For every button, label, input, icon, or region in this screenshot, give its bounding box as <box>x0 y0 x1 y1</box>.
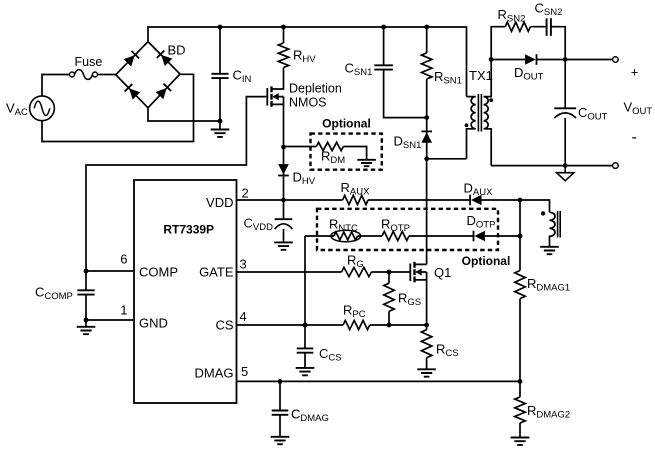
wire RDMAG1 to RDMAG2 <box>519 299 521 397</box>
resistor RPC <box>343 320 370 329</box>
polarity dot primary <box>465 123 469 127</box>
transformer TX1 core <box>478 94 481 132</box>
wire bridge minus rail <box>148 108 220 121</box>
wire DMAG pin line <box>237 380 521 382</box>
wire RAUX to DAUX <box>368 199 471 201</box>
ground CVDD <box>274 242 293 249</box>
resistor ROTP <box>382 231 409 240</box>
svg-text:GATE: GATE <box>199 265 234 280</box>
wire VAC top to fuse <box>42 75 69 96</box>
ground aux winding <box>540 247 559 254</box>
wire aux divider top <box>519 200 521 271</box>
junction GND <box>84 318 89 323</box>
optional box RDM <box>311 134 382 170</box>
wire RCS ground stub <box>426 358 428 370</box>
junction secondary top <box>489 57 494 62</box>
svg-text:VDD: VDD <box>206 195 233 210</box>
svg-text:TX1: TX1 <box>469 68 493 83</box>
resistor RDM <box>316 142 343 150</box>
wire VDD pin2 line <box>237 199 343 201</box>
wire CDMAG ground stub <box>279 415 281 437</box>
diode DSN1 <box>421 131 432 142</box>
wire NMOS gate to COMP net <box>86 97 267 271</box>
diode DAUX <box>470 195 481 206</box>
wire DAUX to aux winding <box>482 200 550 212</box>
wire RPC to Q1 source <box>370 324 427 326</box>
transformer TX1 secondary winding <box>484 60 492 166</box>
wire CCS ground stub <box>304 353 306 368</box>
wire CVDD top <box>283 200 285 219</box>
junction RDM branch <box>281 145 286 150</box>
capacitor CDMAG <box>272 411 289 415</box>
wire CVDD ground stub <box>283 229 285 243</box>
wire NTC branch vertical <box>304 236 306 325</box>
bridge BD diamond <box>116 42 180 108</box>
svg-text:DMAG: DMAG <box>195 366 234 381</box>
wire RGS top <box>388 272 390 283</box>
ground RCS <box>417 369 436 376</box>
bridge diode bottom-right <box>156 84 172 100</box>
wire CIN ground stub <box>219 121 221 130</box>
resistor RSN1 <box>422 53 432 79</box>
ground VOUT triangle <box>557 166 574 181</box>
polarity dot secondary <box>489 98 493 102</box>
wire Q1 source down <box>426 272 428 325</box>
junction CS RGS <box>387 323 392 328</box>
junction output plus <box>563 57 568 62</box>
wire RSN1 top <box>426 27 428 53</box>
optional box NTC <box>317 209 498 250</box>
junction CIN top <box>218 25 223 30</box>
svg-text:6: 6 <box>120 251 127 266</box>
junction CIN bottom <box>218 119 223 124</box>
junction DOTP node <box>518 234 523 239</box>
wire HV bus top rail <box>148 27 467 97</box>
junction aux node <box>518 198 523 203</box>
svg-text:Optional: Optional <box>322 117 371 131</box>
wire RHV top <box>283 27 285 43</box>
wire secondary top to DOUT <box>491 59 525 61</box>
fuse F1 <box>70 72 75 77</box>
transistor depletion NMOS <box>267 86 283 106</box>
wire GATE pin line <box>237 271 342 273</box>
wire NMOS source down <box>283 97 285 200</box>
terminal VOUT minus <box>613 163 619 169</box>
capacitor CSN2 <box>547 18 551 36</box>
bridge diode top-left <box>124 51 140 67</box>
aux winding core <box>558 211 561 238</box>
ground RDMAG2 <box>511 438 530 445</box>
wire CIN bottom <box>219 78 221 121</box>
capacitor CCS <box>297 348 314 352</box>
svg-text:4: 4 <box>240 309 247 324</box>
svg-text:BD: BD <box>168 43 186 58</box>
wire COMP pin line <box>86 270 134 272</box>
junction RHV top <box>281 25 286 30</box>
wire RG to Q1 gate <box>371 271 410 273</box>
bridge diode top-right <box>157 51 173 67</box>
resistor RGS <box>384 283 394 311</box>
transformer TX1 primary winding <box>467 97 476 159</box>
junction CS RCS <box>424 323 429 328</box>
junction output minus <box>563 163 568 168</box>
wire DOTP to aux divider <box>485 235 520 237</box>
svg-text:Fuse: Fuse <box>75 55 103 69</box>
svg-text:Q1: Q1 <box>434 265 451 280</box>
wire RSN2 branch left <box>491 27 505 60</box>
wire DOUT to output plus <box>537 59 613 61</box>
wire RNTC to ROTP <box>358 235 383 237</box>
wire CCOMP top <box>85 271 87 290</box>
diode DOTP <box>474 231 485 242</box>
junction RSN1 top rail <box>424 25 429 30</box>
ground CDMAG <box>271 437 290 444</box>
wire RHV to NMOS drain <box>272 68 284 90</box>
svg-text:COMP: COMP <box>139 265 178 280</box>
resistor RG <box>342 267 372 276</box>
polarity dot aux <box>541 211 545 215</box>
aux winding coil <box>550 212 556 247</box>
ground RDM <box>357 160 376 166</box>
wire Q1 drain up <box>426 159 428 265</box>
junction CDMAG <box>278 379 283 384</box>
junction DMAG node <box>518 379 523 384</box>
svg-text:Optional: Optional <box>462 254 511 268</box>
wire COUT bottom <box>564 118 566 166</box>
wire fuse to bridge <box>98 74 116 76</box>
resistor RHV <box>278 43 288 67</box>
wire VAC bottom return <box>42 74 194 141</box>
ground CIN <box>211 130 230 137</box>
junction drain node <box>424 156 429 161</box>
svg-text:3: 3 <box>240 257 247 272</box>
wire drain to primary <box>427 158 467 160</box>
capacitor CSN1 <box>374 65 393 69</box>
resistor RNTC <box>334 232 357 240</box>
wire secondary bottom rail <box>491 165 612 167</box>
ground CCOMP <box>77 327 96 334</box>
wire COUT top <box>564 60 566 109</box>
wire RGS bottom <box>388 311 390 325</box>
wire CS pin line <box>237 324 344 326</box>
AC source VAC <box>30 96 55 121</box>
wire CDMAG top <box>279 381 281 410</box>
bridge diode bottom-left <box>125 84 141 100</box>
wire ROTP to DOTP <box>409 235 474 237</box>
svg-text:RT7339P: RT7339P <box>163 223 214 237</box>
wire RSN2 to CSN2 <box>530 26 546 28</box>
wire CSN2 to plus node <box>551 27 565 60</box>
capacitor CIN <box>211 74 228 78</box>
wire RDM branch <box>284 146 317 148</box>
thermistor ellipse RNTC <box>331 230 361 242</box>
wire GND pin line <box>86 319 134 321</box>
junction CS CCS <box>303 323 308 328</box>
resistor RDMAG1 <box>515 271 525 299</box>
resistor RAUX <box>343 195 369 204</box>
svg-text:1: 1 <box>120 303 127 318</box>
diode DHV <box>278 164 289 175</box>
wire RDMAG2 ground stub <box>519 423 521 438</box>
wire RCS top <box>426 325 428 330</box>
wire CSN1 bottom <box>384 70 427 118</box>
wire RNTC left <box>305 235 334 237</box>
capacitor COUT <box>554 107 576 109</box>
junction CSN1 top rail <box>381 25 386 30</box>
resistor RCS <box>421 330 431 358</box>
terminal VOUT plus <box>613 57 619 63</box>
junction COMP <box>84 269 89 274</box>
wire CIN top <box>219 27 221 74</box>
capacitor CCOMP <box>77 290 94 294</box>
svg-text:-: - <box>632 129 637 146</box>
resistor RSN2 <box>505 22 530 31</box>
wire GND ground stub <box>85 320 87 327</box>
svg-text:2: 2 <box>242 185 249 200</box>
svg-text:5: 5 <box>241 364 248 379</box>
wire CCS top <box>304 325 306 348</box>
svg-text:GND: GND <box>139 316 168 331</box>
svg-text:+: + <box>631 65 639 80</box>
diode DOUT <box>525 54 536 65</box>
wire CCOMP bottom <box>85 295 87 320</box>
svg-text:Depletion: Depletion <box>289 82 342 96</box>
transistor Q1 <box>410 262 426 282</box>
junction VDD node <box>281 198 286 203</box>
wire RDM to ground <box>343 147 366 160</box>
svg-text:CS: CS <box>215 318 233 333</box>
resistor RDMAG2 <box>515 397 525 423</box>
junction snubber mid <box>424 115 429 120</box>
svg-text:NMOS: NMOS <box>289 96 327 110</box>
op-amp U1 RT7339P IC box <box>134 180 237 403</box>
capacitor CVDD <box>275 218 293 220</box>
wire CSN1 top <box>383 27 385 65</box>
wire RSN1 to DSN1 <box>426 79 428 159</box>
ground CCS <box>296 368 315 375</box>
junction gate node <box>387 270 392 275</box>
